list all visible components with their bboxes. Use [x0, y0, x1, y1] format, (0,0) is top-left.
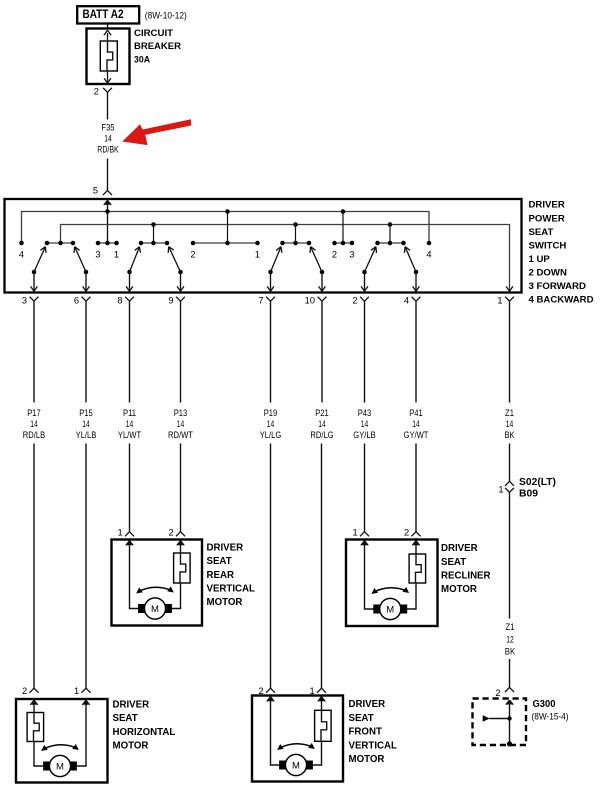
svg-text:CIRCUIT: CIRCUIT — [134, 28, 173, 39]
svg-text:30A: 30A — [134, 54, 150, 65]
svg-text:S02(LT): S02(LT) — [519, 477, 556, 488]
svg-text:SEAT: SEAT — [207, 556, 232, 567]
pin 2 label of circuit breaker — [94, 87, 99, 97]
svg-text:8: 8 — [117, 295, 122, 305]
wire F35 lower segment — [107, 159, 109, 191]
breaker internal up arrow — [104, 30, 111, 41]
wire P41 lower segment to recliner motor — [412, 444, 421, 537]
svg-text:2: 2 — [190, 250, 195, 260]
svg-text:2: 2 — [169, 528, 174, 538]
battery feed wire from BATT A2 to circuit breaker — [107, 23, 109, 29]
motor name — [207, 542, 256, 608]
wire P13 lower segment to rear vertical motor — [176, 444, 185, 537]
wire P21 lower segment to front vertical motor — [317, 444, 326, 693]
svg-text:RD/WT: RD/WT — [168, 430, 193, 441]
splice name S02(LT) B09 — [519, 477, 556, 500]
driver seat recliner motor — [346, 540, 438, 627]
motor pin labels — [118, 528, 174, 538]
wire F35 upper segment — [107, 92, 109, 119]
wiper output wires to box edge — [31, 272, 513, 291]
wire label P17 14 RD/LB — [23, 408, 45, 441]
switch bus 1 (upper) — [22, 212, 430, 244]
wire label P13 14 RD/WT — [168, 408, 193, 441]
svg-text:P43: P43 — [358, 408, 372, 419]
svg-text:VERTICAL: VERTICAL — [207, 584, 256, 595]
svg-text:6: 6 — [74, 295, 79, 305]
svg-text:1: 1 — [114, 250, 119, 260]
wire label Z1 12 BK — [505, 622, 516, 658]
svg-text:12: 12 — [506, 635, 514, 646]
svg-text:1: 1 — [353, 528, 358, 538]
svg-text:2: 2 — [404, 528, 409, 538]
power source box BATT A2 — [77, 6, 139, 23]
svg-text:3 FORWARD: 3 FORWARD — [529, 281, 586, 292]
svg-text:14: 14 — [318, 419, 326, 430]
wire P43 GY/LB upper segment — [364, 301, 366, 402]
motor entry arrows — [361, 541, 420, 546]
svg-text:MOTOR: MOTOR — [349, 754, 385, 765]
svg-text:P19: P19 — [264, 408, 278, 419]
motor entry arrows — [267, 697, 325, 702]
motor name — [441, 543, 491, 595]
svg-text:DRIVER: DRIVER — [207, 542, 244, 553]
svg-text:Z1: Z1 — [506, 622, 515, 633]
ground splice triangle — [483, 715, 490, 721]
svg-text:BK: BK — [505, 647, 516, 658]
wire label P19 14 YL/LG — [260, 408, 282, 441]
motor rotation arc — [41, 744, 79, 751]
wire label Z1 14 BK — [504, 408, 515, 441]
svg-text:RD/BK: RD/BK — [97, 145, 119, 156]
svg-text:1: 1 — [498, 484, 503, 494]
svg-text:DRIVER: DRIVER — [349, 699, 386, 710]
switch bottom connector forks — [30, 297, 514, 302]
motor name — [349, 699, 398, 765]
motor internal wiring — [130, 541, 191, 609]
svg-text:BREAKER: BREAKER — [134, 41, 181, 52]
wire P19 lower segment to front vertical motor — [266, 444, 275, 693]
motor internal wiring — [271, 697, 332, 765]
wiper arrows (diagonals) — [34, 247, 416, 272]
bus1 junction dots — [105, 209, 345, 214]
svg-text:14: 14 — [412, 419, 420, 430]
svg-text:P21: P21 — [315, 408, 329, 419]
wire P41 GY/WT upper segment — [415, 301, 417, 402]
svg-text:(8W-15-4): (8W-15-4) — [532, 712, 569, 722]
svg-text:P41: P41 — [409, 408, 423, 419]
circuit breaker F35 box — [87, 29, 130, 85]
ground terminal dot — [507, 741, 512, 746]
svg-text:BATT A2: BATT A2 — [83, 7, 124, 21]
svg-text:P15: P15 — [79, 408, 93, 419]
switch bus 2 (lower) — [61, 225, 510, 291]
wire label P41 14 GY/WT — [404, 408, 429, 441]
wire Z1 to splice — [505, 444, 514, 486]
connector fork below circuit breaker — [103, 88, 112, 93]
wire P43 lower segment to recliner motor — [360, 444, 369, 537]
wire P11 lower segment to rear vertical motor — [125, 444, 134, 537]
splice S02 symbol — [505, 488, 514, 493]
svg-text:FRONT: FRONT — [349, 727, 382, 738]
driver seat rear vertical motor — [112, 540, 203, 626]
svg-text:14: 14 — [126, 419, 134, 430]
svg-text:9: 9 — [168, 295, 173, 305]
ground internal wiring — [490, 700, 510, 744]
wire P19 YL/LG upper segment — [270, 301, 272, 402]
contact bars — [47, 242, 404, 244]
pin 5 label of seat switch — [93, 185, 98, 195]
svg-text:2: 2 — [259, 686, 264, 696]
motor M symbol — [373, 598, 407, 619]
svg-text:BK: BK — [504, 430, 515, 441]
svg-text:SEAT: SEAT — [113, 713, 138, 724]
svg-text:3: 3 — [95, 250, 100, 260]
svg-text:4: 4 — [19, 250, 24, 260]
svg-text:SEAT: SEAT — [349, 713, 374, 724]
svg-text:14: 14 — [104, 133, 112, 144]
svg-text:1: 1 — [497, 295, 502, 305]
ground entry arrow — [506, 700, 513, 705]
svg-text:14: 14 — [361, 419, 369, 430]
switch name DRIVER POWER SEAT SWITCH legend — [529, 200, 594, 306]
svg-text:2: 2 — [495, 688, 500, 698]
svg-text:10: 10 — [305, 295, 315, 305]
svg-text:P13: P13 — [174, 408, 188, 419]
svg-text:14: 14 — [177, 419, 185, 430]
svg-text:VERTICAL: VERTICAL — [349, 740, 398, 751]
svg-text:7: 7 — [258, 295, 263, 305]
svg-text:M: M — [386, 604, 394, 615]
svg-text:M: M — [151, 604, 159, 615]
svg-text:YL/WT: YL/WT — [118, 430, 141, 441]
svg-text:Z1: Z1 — [505, 408, 514, 419]
motor internal wiring — [365, 541, 426, 609]
svg-text:P17: P17 — [27, 408, 41, 419]
wire Z1 BK upper segment — [509, 301, 511, 402]
ground G300 dashed box — [473, 699, 527, 746]
motor name — [113, 699, 176, 751]
svg-text:MOTOR: MOTOR — [113, 741, 149, 752]
svg-text:SWITCH: SWITCH — [529, 240, 567, 251]
svg-text:SEAT: SEAT — [529, 227, 554, 238]
svg-text:YL/LB: YL/LB — [76, 430, 97, 441]
switch bottom terminal labels — [22, 295, 503, 305]
motor entry arrows — [126, 541, 184, 546]
reference (8W-10-12) — [145, 10, 187, 21]
svg-text:M: M — [56, 761, 64, 772]
wire P15 YL/LB upper segment — [85, 301, 87, 402]
motor M symbol — [279, 754, 313, 775]
contact dots — [19, 241, 431, 246]
svg-text:4: 4 — [426, 250, 431, 260]
wire label P15 14 YL/LB — [76, 408, 97, 441]
svg-text:2: 2 — [352, 295, 357, 305]
svg-text:5: 5 — [93, 185, 98, 195]
svg-text:4: 4 — [404, 295, 409, 305]
circuit breaker label CIRCUIT BREAKER 30A — [134, 28, 181, 66]
motor rotation arc — [136, 587, 174, 594]
svg-text:RD/LG: RD/LG — [310, 430, 333, 441]
svg-text:14: 14 — [30, 419, 38, 430]
breaker internal down arrow — [104, 71, 111, 83]
wiper pivot dots — [32, 270, 419, 275]
svg-text:2 DOWN: 2 DOWN — [529, 267, 567, 278]
bus drop wires to contacts — [154, 212, 391, 244]
driver seat horizontal motor — [16, 699, 108, 783]
motor M symbol — [138, 598, 172, 619]
connector fork above switch — [103, 190, 112, 195]
svg-text:POWER: POWER — [529, 213, 565, 224]
svg-text:G300: G300 — [533, 699, 556, 710]
svg-text:(8W-10-12): (8W-10-12) — [145, 10, 187, 21]
svg-text:YL/LG: YL/LG — [260, 430, 282, 441]
wire P21 RD/LG upper segment — [321, 301, 323, 402]
wire P11 YL/WT upper segment — [129, 301, 131, 402]
svg-text:1: 1 — [255, 250, 260, 260]
svg-text:MOTOR: MOTOR — [207, 597, 243, 608]
splice pin 1 label — [498, 484, 503, 494]
svg-text:GY/LB: GY/LB — [353, 430, 375, 441]
svg-text:DRIVER: DRIVER — [529, 200, 565, 211]
wire label P21 14 RD/LG — [310, 408, 333, 441]
wire Z1 12 BK upper segment — [509, 492, 511, 618]
svg-text:F35: F35 — [101, 122, 114, 133]
bus2 junction dots — [151, 222, 392, 227]
svg-text:GY/WT: GY/WT — [404, 430, 429, 441]
wire Z1 12 BK lower segment to ground — [505, 659, 514, 692]
wire label P43 14 GY/LB — [353, 408, 375, 441]
svg-text:2: 2 — [22, 686, 27, 696]
svg-text:1: 1 — [74, 686, 79, 696]
motor pin labels — [353, 528, 410, 538]
svg-text:1: 1 — [118, 528, 123, 538]
motor M symbol — [43, 755, 77, 776]
svg-text:P11: P11 — [123, 408, 136, 419]
wire P15 lower segment to horizontal motor — [82, 444, 91, 693]
red highlight arrow — [122, 119, 191, 145]
svg-text:14: 14 — [506, 419, 514, 430]
svg-text:HORIZONTAL: HORIZONTAL — [113, 727, 176, 738]
svg-text:2: 2 — [94, 87, 99, 97]
svg-text:MOTOR: MOTOR — [441, 584, 477, 595]
svg-text:2: 2 — [332, 250, 337, 260]
ground G300 label — [532, 699, 569, 722]
motor rotation arc — [277, 743, 315, 750]
circuit breaker element symbol — [100, 41, 117, 71]
svg-text:B09: B09 — [519, 489, 538, 500]
svg-text:DRIVER: DRIVER — [113, 699, 150, 710]
switch contact number labels — [19, 250, 432, 260]
driver seat front vertical motor — [252, 696, 343, 782]
svg-text:RECLINER: RECLINER — [441, 571, 491, 582]
svg-text:4 BACKWARD: 4 BACKWARD — [529, 295, 594, 306]
motor entry arrows — [30, 700, 89, 705]
wire label F35 14 RD/BK — [97, 122, 119, 155]
svg-text:3: 3 — [349, 250, 354, 260]
wire P13 RD/WT upper segment — [180, 301, 182, 402]
switch feed entry arrow pin 5 — [104, 200, 111, 243]
motor rotation arc — [371, 587, 409, 594]
ground pin 2 label — [495, 688, 500, 698]
svg-text:M: M — [292, 760, 300, 771]
svg-text:RD/LB: RD/LB — [23, 430, 45, 441]
wire label P11 14 YL/WT — [118, 408, 141, 441]
ground junction dot — [507, 716, 511, 720]
motor pin labels — [259, 686, 315, 696]
svg-text:3: 3 — [22, 295, 27, 305]
svg-text:1: 1 — [310, 686, 315, 696]
svg-text:1 UP: 1 UP — [529, 254, 551, 265]
motor internal wiring — [27, 700, 86, 766]
wire P17 lower segment to horizontal motor — [30, 444, 39, 693]
motor pin labels — [22, 686, 79, 696]
svg-text:SEAT: SEAT — [441, 557, 466, 568]
svg-text:14: 14 — [267, 419, 275, 430]
driver power seat switch box — [5, 199, 522, 293]
svg-text:DRIVER: DRIVER — [441, 543, 478, 554]
wire P17 RD/LB upper segment — [33, 301, 35, 402]
svg-text:14: 14 — [82, 419, 90, 430]
svg-text:REAR: REAR — [207, 570, 234, 581]
